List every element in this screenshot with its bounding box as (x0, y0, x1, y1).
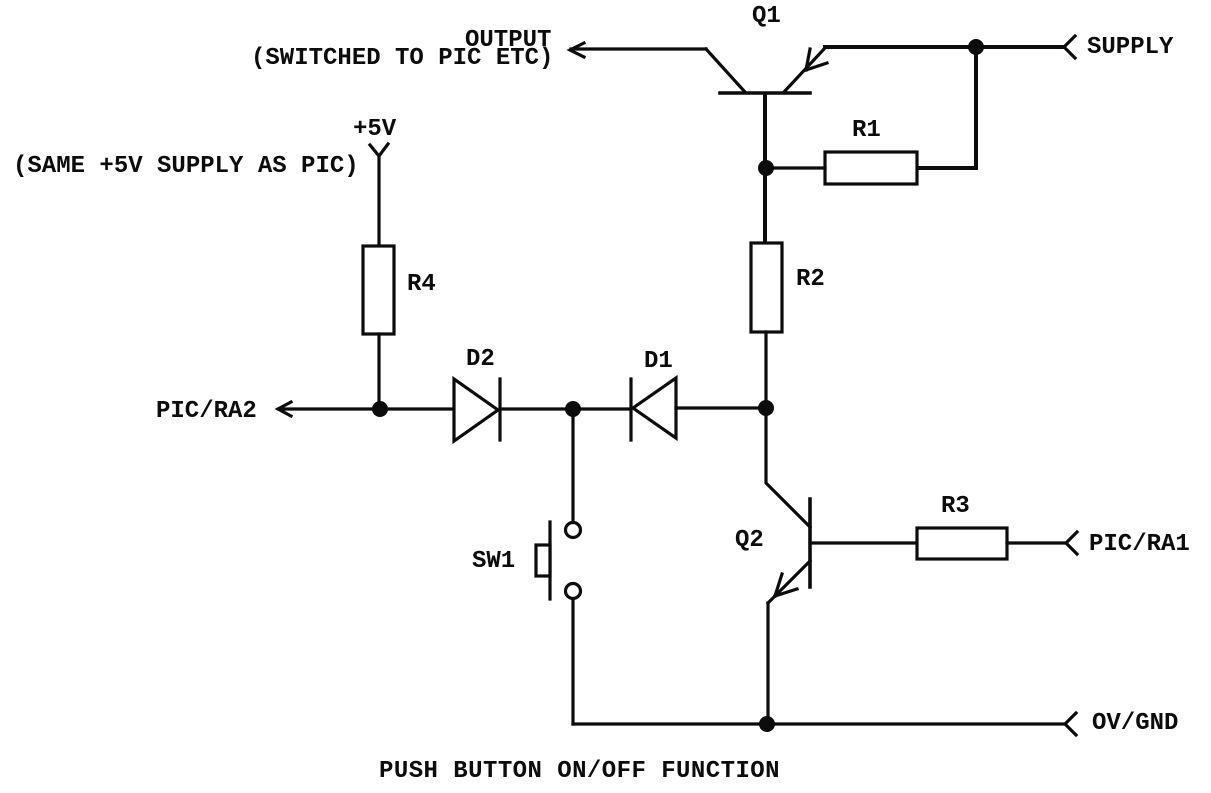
svg-text:D2: D2 (466, 346, 495, 373)
switch SW1 (536, 522, 581, 599)
svg-text:Q1: Q1 (752, 3, 781, 30)
wire R2 bottom lead (764, 332, 767, 409)
wire SW1 top lead (571, 409, 574, 522)
wire SW1 bottom lead (571, 599, 574, 724)
wire +5V to R4 (377, 156, 380, 246)
wire D1 anode to node (676, 406, 766, 409)
diode D2 (454, 379, 500, 441)
terminal PIC/RA1 (1066, 532, 1077, 554)
svg-text:SW1: SW1 (472, 548, 515, 575)
terminal 0V/GND (1065, 713, 1076, 735)
net label OUTPUT (251, 27, 553, 72)
node D2 / D1 / SW1 junction (565, 401, 581, 417)
wire OUTPUT to Q1 collector (571, 47, 706, 50)
wire R4 bottom lead (377, 334, 380, 409)
wire Q2 base to R3 (810, 541, 917, 544)
wire Q2 emitter to ground (766, 603, 769, 724)
wire R1 left lead (766, 166, 825, 169)
svg-text:PIC/RA1: PIC/RA1 (1089, 531, 1190, 558)
wire D2 cathode to node (500, 407, 573, 410)
wire node to Q2 collector (766, 409, 810, 527)
node supply junction (968, 39, 984, 55)
node R2 / D1 / Q2 collector junction (758, 400, 774, 416)
resistor R4 (363, 246, 394, 334)
svg-text:R2: R2 (796, 266, 825, 293)
wire supply junction to R1 (974, 47, 978, 168)
svg-text:SUPPLY: SUPPLY (1087, 34, 1174, 61)
terminal arrow OUTPUT (570, 43, 584, 57)
svg-text:R3: R3 (941, 493, 970, 520)
wire PIC/RA2 to D2 anode (279, 407, 454, 410)
wire R1 right lead (917, 166, 976, 170)
terminal +5V (370, 144, 388, 156)
resistor R2 (751, 243, 782, 332)
svg-text:(SWITCHED TO PIC ETC): (SWITCHED TO PIC ETC) (251, 45, 553, 72)
node Q1 base / R1 junction (758, 160, 774, 176)
transistor Q1 (706, 48, 827, 93)
diode D1 (631, 378, 676, 440)
resistor R1 (825, 152, 917, 184)
terminal arrow PIC/RA2 (278, 402, 291, 416)
svg-text:Q2: Q2 (735, 527, 764, 554)
node Q2 emitter / ground junction (759, 716, 775, 732)
transistor Q2 (768, 499, 810, 603)
wire Q1 base to R2 (763, 94, 767, 243)
svg-text:(SAME +5V SUPPLY AS PIC): (SAME +5V SUPPLY AS PIC) (13, 153, 359, 180)
resistor R3 (917, 528, 1007, 559)
svg-text:D1: D1 (644, 348, 673, 375)
svg-text:R1: R1 (852, 117, 881, 144)
svg-text:OV/GND: OV/GND (1092, 710, 1178, 737)
svg-text:PUSH BUTTON ON/OFF FUNCTION: PUSH BUTTON ON/OFF FUNCTION (379, 758, 780, 785)
svg-text:PIC/RA2: PIC/RA2 (156, 398, 257, 425)
wire node to D1 cathode (573, 407, 631, 410)
wire Q1 emitter to SUPPLY (825, 45, 1063, 49)
node R4 / PIC/RA2 junction (372, 401, 388, 417)
wire R3 right lead (1007, 541, 1064, 544)
svg-text:+5V: +5V (353, 116, 397, 143)
svg-text:R4: R4 (407, 271, 436, 298)
wire ground bus (573, 722, 1063, 725)
terminal SUPPLY (1064, 36, 1075, 58)
